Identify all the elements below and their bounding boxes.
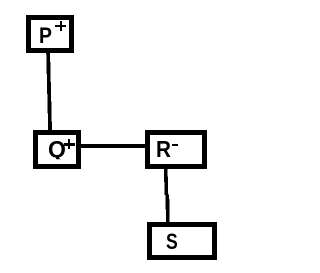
- wire R-S: [0, 0, 246, 273]
- wire P-Q: [0, 0, 246, 273]
- node R-: [145, 130, 207, 169]
- node S: [147, 222, 217, 260]
- wire Q-R: [0, 0, 246, 273]
- node Q+: [33, 130, 81, 169]
- node P+: [26, 15, 74, 53]
